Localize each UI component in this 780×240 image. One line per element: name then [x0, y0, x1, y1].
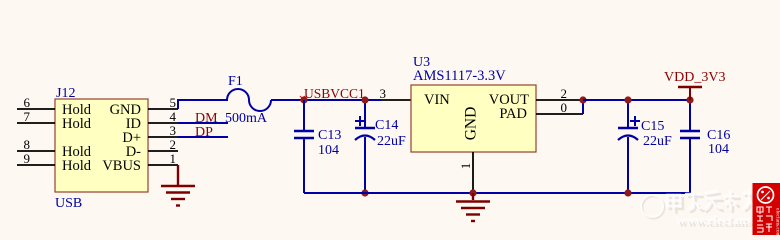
U3 pin 2 (VOUT) — [536, 99, 583, 101]
watermark (red strip right edge) — [753, 183, 780, 238]
svg-text:C16: C16 — [707, 128, 730, 143]
svg-text:4: 4 — [170, 109, 177, 124]
junction node C14 top — [361, 96, 368, 103]
watermark (white text bottom right) — [641, 190, 780, 230]
svg-text:C15: C15 — [641, 119, 664, 134]
bottom rail wire — [304, 192, 690, 194]
junction node U3 GND — [469, 189, 476, 196]
junction node USBVCC1/C13 — [300, 96, 307, 103]
svg-text:7: 7 — [24, 109, 31, 124]
svg-text:6: 6 — [24, 95, 31, 110]
net label DP — [178, 136, 228, 138]
svg-text:8: 8 — [24, 137, 31, 152]
ground (U3 GND) — [456, 193, 490, 221]
svg-text:2: 2 — [561, 86, 568, 101]
wire pin5 to fuse — [178, 100, 228, 109]
svg-text:C14: C14 — [375, 118, 398, 133]
connector J12 body — [55, 99, 148, 192]
U3 pin 0 (PAD) — [536, 113, 583, 115]
J12 pin 7 — [17, 122, 55, 124]
junction node VOUT/PAD — [579, 96, 586, 103]
svg-text:3: 3 — [170, 123, 177, 138]
J12 pin 4 — [148, 122, 178, 124]
svg-text:C13: C13 — [318, 128, 341, 143]
svg-text:5: 5 — [170, 95, 177, 110]
svg-text:0: 0 — [561, 100, 568, 115]
J12 pin 2 — [148, 150, 178, 152]
svg-text:22uF: 22uF — [643, 134, 672, 149]
fuse F1 — [227, 89, 271, 111]
capacitor C16 — [689, 100, 691, 131]
svg-text:1: 1 — [170, 151, 177, 166]
wire fuse to VIN — [271, 99, 381, 101]
svg-text:3: 3 — [380, 86, 387, 101]
junction node C15 bottom — [624, 189, 631, 196]
svg-text:1: 1 — [458, 163, 473, 170]
junction node VDD/C16 — [686, 96, 693, 103]
svg-text:J12: J12 — [56, 86, 75, 101]
J12 pin 1 — [148, 164, 178, 166]
junction node C14 bottom — [361, 189, 368, 196]
svg-text:Hold: Hold — [62, 116, 92, 132]
capacitor C14 (polarized) — [364, 100, 366, 128]
wire PAD up to VOUT — [582, 100, 584, 114]
J12 pin 3 — [148, 136, 178, 138]
VIN pin stub — [381, 99, 411, 101]
wire VOUT rail to VDD — [583, 99, 690, 101]
ground (J12 pin1) — [161, 165, 195, 206]
net label DM — [178, 122, 228, 124]
svg-text:VDD_3V3: VDD_3V3 — [664, 70, 725, 85]
svg-text:AMS1117-3.3V: AMS1117-3.3V — [413, 68, 506, 84]
svg-text:F1: F1 — [228, 74, 243, 89]
svg-text:elecfans.com: elecfans.com — [775, 208, 780, 235]
svg-text:2: 2 — [170, 137, 177, 152]
J12 pin 6 — [17, 108, 55, 110]
J12 pin 8 — [17, 150, 55, 152]
svg-text:500mA: 500mA — [225, 111, 268, 126]
svg-text:104: 104 — [708, 142, 729, 157]
J12 pin 9 — [17, 164, 55, 166]
U3 pin 1 (GND) — [472, 152, 474, 193]
capacitor C13 — [303, 100, 305, 131]
svg-text:9: 9 — [24, 151, 31, 166]
svg-text:VIN: VIN — [424, 92, 450, 108]
svg-text:22uF: 22uF — [377, 134, 406, 149]
power port VDD_3V3 — [689, 88, 691, 100]
svg-text:VBUS: VBUS — [102, 158, 141, 174]
capacitor C15 (polarized) — [627, 100, 629, 128]
regulator U3 body — [411, 85, 536, 152]
svg-text:USBVCC1: USBVCC1 — [304, 86, 365, 101]
J12 pin labels inside — [62, 102, 141, 174]
svg-text:PAD: PAD — [499, 106, 527, 122]
svg-text:USB: USB — [55, 196, 82, 211]
svg-text:104: 104 — [318, 143, 339, 158]
svg-text:DM: DM — [195, 111, 218, 126]
svg-text:GND: GND — [463, 107, 480, 141]
junction node C15 top — [624, 96, 631, 103]
svg-text:DP: DP — [195, 125, 213, 140]
J12 pin 5 — [148, 108, 178, 110]
svg-text:Hold: Hold — [62, 158, 92, 174]
